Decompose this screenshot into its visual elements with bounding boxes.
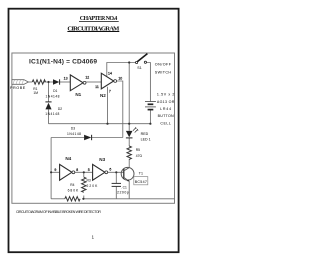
svg-text:8: 8 <box>76 168 78 172</box>
svg-text:LR44: LR44 <box>160 107 171 111</box>
svg-text:1M: 1M <box>33 91 38 95</box>
svg-text:LED 1: LED 1 <box>141 137 151 141</box>
svg-text:1N4148: 1N4148 <box>45 112 59 116</box>
svg-text:1N4148: 1N4148 <box>46 94 60 98</box>
svg-text:13: 13 <box>64 77 68 81</box>
svg-text:N4: N4 <box>65 156 71 161</box>
svg-text:680K: 680K <box>68 188 79 192</box>
svg-text:S1: S1 <box>137 66 141 70</box>
svg-text:. C1: . C1 <box>121 185 127 189</box>
svg-text:14: 14 <box>108 72 112 76</box>
svg-text:T1: T1 <box>139 172 143 176</box>
svg-text:220K: 220K <box>87 184 99 188</box>
svg-text:D3: D3 <box>71 127 75 131</box>
svg-text:ON/OFF: ON/OFF <box>155 62 172 66</box>
svg-text:BUTTON: BUTTON <box>158 114 174 118</box>
svg-text:2200p: 2200p <box>117 191 129 195</box>
svg-text:R4: R4 <box>70 183 74 187</box>
svg-text:D1: D1 <box>53 89 57 93</box>
svg-text:7: 7 <box>109 90 111 94</box>
svg-text:R3: R3 <box>87 178 91 182</box>
svg-text:AG13 OR: AG13 OR <box>157 100 175 104</box>
svg-text:N3: N3 <box>99 157 105 162</box>
svg-text:47Ω: 47Ω <box>136 154 143 158</box>
svg-text:RED: RED <box>141 132 149 136</box>
svg-text:1N4148: 1N4148 <box>67 132 81 136</box>
svg-text:IC1(N1-N4) = CD4069: IC1(N1-N4) = CD4069 <box>29 58 97 65</box>
svg-text:N2: N2 <box>100 93 106 98</box>
svg-text:1: 1 <box>92 235 95 240</box>
svg-text:11: 11 <box>95 85 99 89</box>
svg-text:D2: D2 <box>58 107 62 111</box>
svg-text:CIRCUIT DIAGRAM OF INVISIBLE B: CIRCUIT DIAGRAM OF INVISIBLE BROKEN WIRE… <box>16 210 101 214</box>
svg-text:N1: N1 <box>75 92 81 97</box>
svg-text:6: 6 <box>109 167 111 171</box>
svg-text:1.5V x 2: 1.5V x 2 <box>157 93 175 97</box>
svg-text:10: 10 <box>118 76 122 80</box>
svg-text:SWITCH: SWITCH <box>155 70 172 74</box>
svg-text:PROBE: PROBE <box>10 86 26 90</box>
svg-text:CELL: CELL <box>160 121 171 125</box>
svg-text:12: 12 <box>85 75 89 79</box>
svg-text:R5: R5 <box>136 148 140 152</box>
svg-text:9: 9 <box>54 168 56 172</box>
svg-text:BC547: BC547 <box>135 180 147 184</box>
svg-text:5: 5 <box>88 168 90 172</box>
